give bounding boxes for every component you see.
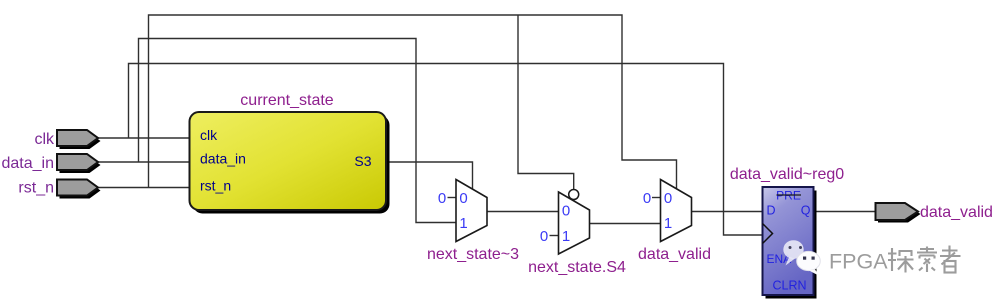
wire clk feedback: clk net up and across to flip-flop clock xyxy=(129,64,763,236)
svg-text:0: 0 xyxy=(562,203,570,220)
svg-text:0: 0 xyxy=(664,190,672,207)
wire constant 0 stub mux2 xyxy=(550,235,559,237)
svg-text:rst_n: rst_n xyxy=(18,180,54,197)
output pin data_valid shadow xyxy=(878,206,921,223)
svg-text:D: D xyxy=(767,204,776,218)
wire constant 0 stub mux3 xyxy=(652,197,661,199)
mux data_valid xyxy=(661,180,692,242)
output pin data_valid xyxy=(876,203,919,220)
watermark wechat icon big bubble xyxy=(783,240,803,265)
big bubble eyes xyxy=(789,246,792,249)
mux next_state~3 xyxy=(456,180,487,242)
input pin data_in shadow xyxy=(60,157,101,173)
svg-text:1: 1 xyxy=(562,228,570,245)
svg-text:current_state: current_state xyxy=(240,92,333,109)
svg-text:clk: clk xyxy=(34,131,55,148)
svg-text:data_in: data_in xyxy=(2,155,55,172)
wire mux1 output to mux2 input 0 xyxy=(487,211,559,213)
svg-text:data_valid: data_valid xyxy=(920,204,992,221)
svg-text:next_state.S4: next_state.S4 xyxy=(528,259,626,276)
svg-text:CLRN: CLRN xyxy=(772,279,806,293)
svg-text:next_state~3: next_state~3 xyxy=(427,246,519,263)
svg-text:data_valid: data_valid xyxy=(638,246,711,263)
flip-flop data_valid~reg0 shadow xyxy=(766,191,817,299)
wire mux2 output to mux3 input 1 xyxy=(590,223,661,225)
mux next_state.S4 xyxy=(559,192,590,254)
wire S3 output to mux1 select xyxy=(386,162,473,190)
svg-text:1: 1 xyxy=(459,215,467,232)
svg-text:data_valid~reg0: data_valid~reg0 xyxy=(730,166,844,183)
small bubble eyes xyxy=(803,257,806,260)
svg-text:0: 0 xyxy=(540,228,548,245)
input pin clk xyxy=(57,130,98,146)
input pin rst_n shadow xyxy=(60,183,101,199)
wire constant 0 stub mux1 xyxy=(448,197,457,199)
input pin data_in xyxy=(57,154,98,170)
wire mux3 output to flip-flop D xyxy=(692,211,763,213)
wire rst_n pin to current_state xyxy=(96,187,190,189)
svg-text:S3: S3 xyxy=(354,153,371,169)
wire data_in feedback: data_in net up and across down to mux1 input 1 xyxy=(139,39,457,223)
state machine current_state shadow xyxy=(193,116,390,214)
svg-text:FPGA: FPGA xyxy=(829,250,888,274)
flip-flop data_valid~reg0 xyxy=(763,187,814,295)
wire data_in pin to current_state xyxy=(96,161,190,163)
strike line over PRE xyxy=(777,194,802,196)
watermark glyph suo (索) xyxy=(917,247,937,273)
watermark wechat icon small bubble xyxy=(797,251,821,276)
svg-text:clk: clk xyxy=(200,127,218,143)
mux2 inverted select bubble xyxy=(569,190,579,200)
svg-text:1: 1 xyxy=(664,215,672,232)
svg-text:0: 0 xyxy=(459,190,467,207)
watermark glyph zhe (者) xyxy=(940,246,961,273)
watermark glyphs white emboss copies xyxy=(889,247,962,274)
svg-text:rst_n: rst_n xyxy=(200,178,231,194)
wire clk pin to current_state xyxy=(96,137,190,139)
wire rst_n branch to mux2 inverted select bubble xyxy=(518,15,574,190)
flip-flop clock chevron xyxy=(763,224,773,244)
wire rst_n feedback: rst_n net up and across to mux3 select xyxy=(149,15,677,190)
state machine current_state xyxy=(190,112,387,210)
input pin clk shadow xyxy=(60,133,101,149)
svg-text:0: 0 xyxy=(643,190,651,207)
svg-text:Q: Q xyxy=(801,204,811,218)
svg-text:data_in: data_in xyxy=(200,151,246,167)
watermark glyph tan (探) xyxy=(888,248,914,273)
input pin rst_n xyxy=(57,180,98,196)
wire flip-flop Q to output pin xyxy=(814,211,877,213)
svg-text:0: 0 xyxy=(438,190,446,207)
